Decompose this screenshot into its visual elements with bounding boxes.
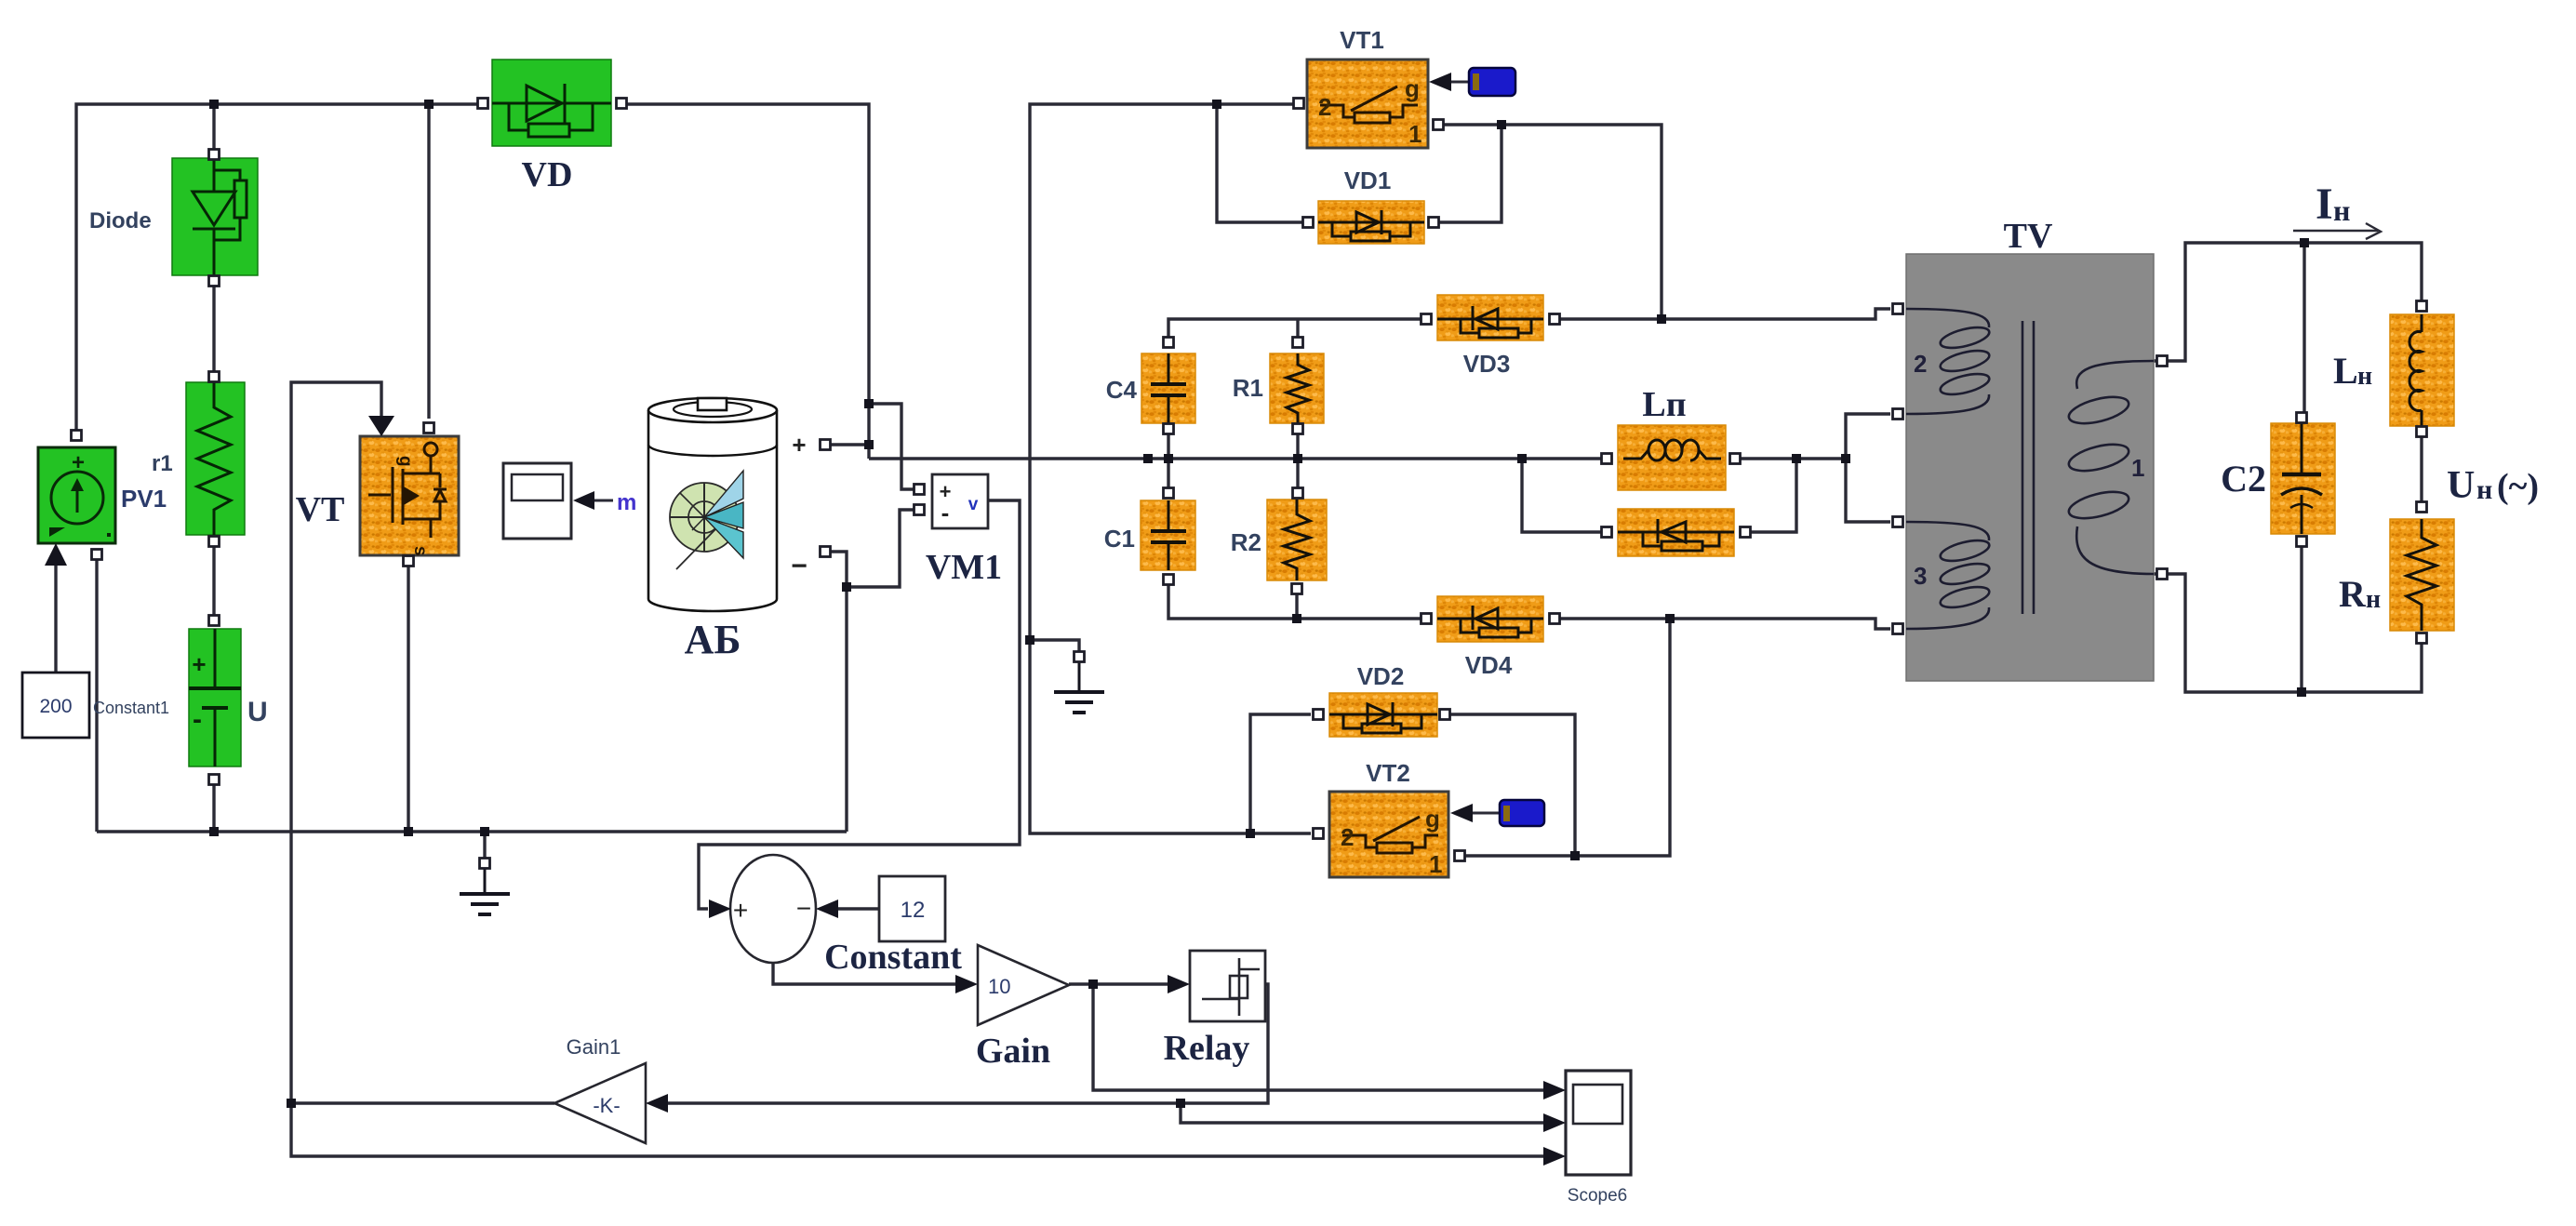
- wire top rail VD to corner: [627, 104, 869, 459]
- junction Gain1 output: [287, 1099, 296, 1108]
- label Diode: [89, 208, 152, 233]
- wire bottom rail: [97, 830, 847, 833]
- wire VD1 right branch: [1439, 125, 1502, 222]
- label PV1: [121, 485, 167, 513]
- wire ground2 branch: [1030, 640, 1079, 651]
- svg-text:Constant1: Constant1: [93, 699, 169, 717]
- wire R1 bottom: [1296, 429, 1299, 459]
- junction top rail Diode: [209, 100, 219, 109]
- arrow into sum plus: [709, 900, 731, 918]
- port C2 bottom: [2297, 537, 2307, 547]
- voltmeter VM1: [932, 474, 988, 528]
- port VD2 left: [1314, 710, 1324, 720]
- svg-text:+: +: [192, 650, 206, 678]
- wire VD2 branch: [1250, 714, 1311, 833]
- wire VT1 anode to VD3 net: [1444, 125, 1662, 319]
- capacitor C2: [2271, 423, 2335, 534]
- scope block Scope6: [1566, 1071, 1631, 1175]
- ground symbol near U: [460, 869, 510, 914]
- label VT1: [1340, 26, 1384, 54]
- wire Relay output to Gain1: [666, 984, 1268, 1103]
- display block: [503, 463, 571, 539]
- label VD: [522, 155, 573, 194]
- label AB minus: [791, 551, 808, 581]
- wire VT2 collector net: [1465, 619, 1670, 856]
- junction top rail VT: [424, 100, 434, 109]
- junction load top: [2300, 238, 2309, 247]
- junction mid rail C1: [1164, 454, 1173, 463]
- arrow scope input3: [1543, 1147, 1566, 1166]
- wire AB minus jog: [831, 552, 847, 587]
- svg-text:1: 1: [1429, 850, 1442, 878]
- diode VD4: [1437, 596, 1543, 642]
- junction bottom rail ground1: [480, 827, 489, 836]
- wire PV1 minus to bottom rail: [95, 560, 98, 832]
- wire VM1 minus input branch: [847, 510, 914, 587]
- junction relay feedback: [1176, 1099, 1185, 1108]
- svg-text:(~): (~): [2497, 467, 2539, 506]
- junction VD4 rail VT2: [1665, 614, 1675, 623]
- port freewheel diode right: [1741, 527, 1751, 538]
- port R2 bottom: [1292, 584, 1302, 594]
- label m: [617, 490, 636, 515]
- wire C1 top: [1167, 459, 1169, 487]
- label VD1: [1344, 167, 1392, 194]
- svg-text:н: н: [2357, 362, 2372, 391]
- svg-text:s: s: [410, 546, 430, 556]
- junction VT1 anode VD1: [1497, 120, 1506, 129]
- inductor Ln: [2390, 314, 2454, 426]
- port Rn top: [2417, 502, 2427, 513]
- svg-text:Diode: Diode: [89, 208, 152, 233]
- wire Gain to Relay: [1069, 982, 1169, 985]
- wire r1 to U: [212, 547, 215, 616]
- capacitor C4: [1141, 353, 1195, 423]
- port VT source bottom: [404, 556, 414, 566]
- wire AB plus to mid rail: [831, 443, 869, 446]
- diode VD1: [1318, 201, 1424, 244]
- junction mid rail Lp loop: [1517, 454, 1527, 463]
- wire sum output to Gain: [773, 963, 957, 984]
- svg-text:VD1: VD1: [1344, 167, 1392, 194]
- port Ln top: [2417, 301, 2427, 312]
- label AB: [685, 617, 741, 662]
- label Constant: [824, 938, 962, 977]
- svg-text:2: 2: [1341, 823, 1354, 851]
- svg-text:200: 200: [39, 696, 72, 717]
- junction bottom rail VT: [404, 827, 413, 836]
- wire C2 top branch: [2302, 243, 2305, 412]
- svg-text:r1: r1: [152, 451, 173, 476]
- port Lp left: [1602, 454, 1612, 464]
- port VT drain top: [424, 423, 434, 433]
- transistor VT1: [1307, 60, 1428, 148]
- svg-text:-: -: [193, 704, 202, 735]
- wire to VD4: [1297, 617, 1421, 620]
- junction gate net ground2: [1025, 635, 1034, 645]
- constant block Constant1 value 200: [22, 673, 89, 738]
- svg-text:1: 1: [1408, 120, 1421, 148]
- svg-text:Constant: Constant: [824, 938, 962, 977]
- svg-text:10: 10: [988, 975, 1010, 998]
- transistor VT2: [1329, 792, 1448, 878]
- wire TV port1 top to load: [2154, 243, 2422, 361]
- svg-text:+: +: [733, 896, 748, 925]
- wire Lp diode loop left: [1522, 459, 1601, 532]
- wire R2 bottom: [1295, 594, 1298, 619]
- junction VD1 top: [1212, 100, 1221, 109]
- port VM1 minus: [914, 505, 925, 515]
- diode VD3: [1437, 295, 1543, 340]
- wire mid plus rail: [869, 457, 1607, 460]
- resistor R1: [1270, 353, 1324, 423]
- port AB minus: [821, 547, 831, 557]
- port TV winding1 bottom: [2157, 569, 2168, 580]
- svg-text:−: −: [791, 551, 808, 581]
- junction Gain output: [1088, 979, 1098, 989]
- junction plus port: [864, 440, 874, 449]
- diode block VD: [492, 60, 611, 146]
- port ground2: [1074, 652, 1085, 662]
- wire Constant1 to PV1: [54, 556, 57, 673]
- port VD1 right: [1429, 218, 1439, 228]
- port C2 top: [2297, 413, 2307, 423]
- label Ln: [2333, 350, 2372, 392]
- junction gate net VT2: [1246, 829, 1255, 838]
- wire C2 bottom branch: [2300, 547, 2302, 692]
- diode block Diode: [172, 158, 258, 275]
- arrow VT1 gate: [1429, 73, 1469, 91]
- wire Constant 12 to sum: [836, 907, 879, 910]
- label R1: [1233, 374, 1263, 402]
- wire VM1 plus input branch: [869, 404, 914, 489]
- resistor Rn: [2390, 519, 2454, 631]
- junction TV winding link: [1841, 454, 1850, 463]
- svg-text:PV1: PV1: [121, 485, 167, 513]
- wire to VD3: [1298, 317, 1421, 320]
- svg-text:C4: C4: [1106, 376, 1138, 404]
- svg-text:TV: TV: [2004, 217, 2053, 256]
- label TV: [2004, 217, 2053, 256]
- port VD1 left: [1303, 218, 1314, 228]
- svg-text:U: U: [2447, 464, 2475, 507]
- svg-text:+: +: [792, 431, 806, 459]
- wire R2 top: [1296, 459, 1299, 487]
- port R1 top: [1293, 338, 1303, 348]
- svg-text:VT: VT: [296, 490, 345, 529]
- label Gain1: [567, 1035, 621, 1059]
- svg-text:Relay: Relay: [1164, 1029, 1250, 1068]
- label VD2: [1357, 662, 1405, 690]
- gain block Gain1: [554, 1063, 646, 1143]
- ground symbol center: [1054, 662, 1104, 713]
- label Scope6: [1568, 1186, 1627, 1206]
- port VD4 right: [1550, 614, 1560, 624]
- label AB plus: [792, 431, 806, 459]
- wire VM1 output to sum: [699, 500, 1020, 909]
- svg-text:C2: C2: [2221, 458, 2266, 500]
- svg-text:VD4: VD4: [1465, 651, 1513, 679]
- port C1 top: [1164, 488, 1174, 499]
- port R2 top: [1293, 488, 1303, 499]
- wire VD1 left branch: [1217, 104, 1302, 222]
- svg-text:U: U: [247, 697, 268, 727]
- wire VT gate drive vertical: [291, 382, 1545, 1156]
- label VD3: [1463, 350, 1511, 378]
- port Lp right: [1730, 454, 1741, 464]
- arrow into Gain: [955, 975, 978, 993]
- label In with arrow: [2293, 180, 2381, 239]
- wire Lp diode loop right: [1740, 459, 1796, 532]
- port VT2 pin2: [1314, 829, 1324, 839]
- port VD right: [617, 99, 627, 109]
- port VD4 left: [1421, 614, 1432, 624]
- svg-text:-: -: [941, 499, 950, 526]
- svg-text:-K-: -K-: [593, 1094, 620, 1117]
- svg-text:VD3: VD3: [1463, 350, 1511, 378]
- label VD4: [1465, 651, 1513, 679]
- transformer TV: [1906, 254, 2154, 681]
- label C1: [1104, 525, 1135, 553]
- wire VT drain branch: [427, 104, 430, 419]
- svg-text:g: g: [1405, 74, 1420, 102]
- label VT: [296, 490, 345, 529]
- wire VD4 to TV port3: [1560, 619, 1890, 629]
- wire TV winding2 bottom link: [1846, 414, 1890, 522]
- port Diode top: [209, 150, 220, 160]
- svg-text:2: 2: [1914, 350, 1927, 378]
- svg-text:m: m: [617, 490, 636, 515]
- svg-text:g: g: [395, 456, 415, 467]
- wire ground1 stub: [483, 832, 486, 858]
- port ground1: [480, 859, 490, 869]
- junction VT2 VD2: [1570, 851, 1580, 860]
- junction Lp right: [1792, 454, 1801, 463]
- wire Ln to Rn: [2420, 437, 2423, 501]
- svg-text:VT2: VT2: [1366, 759, 1410, 787]
- junction mid rail R1: [1293, 454, 1302, 463]
- label Relay: [1164, 1029, 1250, 1068]
- svg-text:3: 3: [1914, 562, 1927, 590]
- svg-text:Gain1: Gain1: [567, 1035, 621, 1059]
- port U bottom: [209, 775, 220, 785]
- svg-text:Gain: Gain: [976, 1032, 1050, 1071]
- wire Diode branch: [212, 104, 215, 149]
- svg-text:Lп: Lп: [1642, 385, 1686, 424]
- arrow into display: [573, 491, 613, 510]
- source PV1: [38, 447, 115, 543]
- arrow scope input2: [1543, 1113, 1566, 1132]
- label VT2: [1366, 759, 1410, 787]
- port TV winding3 top: [1893, 517, 1903, 527]
- wire TV port1 bottom to load: [2154, 574, 2422, 692]
- wire C4 top: [1168, 319, 1298, 348]
- label U: [247, 697, 268, 727]
- port TV winding2 bottom: [1893, 409, 1903, 420]
- svg-text:R2: R2: [1231, 528, 1261, 556]
- wire Diode to r1: [212, 285, 215, 372]
- wire U to bottom rail: [212, 785, 215, 832]
- wire VT1 gate net vertical: [1030, 104, 1311, 833]
- svg-text:VD: VD: [522, 155, 573, 194]
- port VD2 right: [1440, 710, 1450, 720]
- label Constant1: [93, 699, 169, 717]
- wire top rail PV1 to VD: [76, 104, 477, 430]
- label VM1: [926, 548, 1002, 587]
- svg-text:R1: R1: [1233, 374, 1263, 402]
- arrow into sum minus: [816, 900, 838, 918]
- battery U: [189, 629, 241, 766]
- svg-text:C1: C1: [1104, 525, 1135, 553]
- port PV1 top: [72, 431, 82, 441]
- label Lp: [1642, 385, 1686, 424]
- port C4 top: [1164, 338, 1174, 348]
- svg-text:н: н: [2476, 474, 2492, 505]
- arrow into PV1 signal input: [45, 543, 67, 566]
- label r1: [152, 451, 173, 476]
- svg-text:2: 2: [1318, 93, 1331, 121]
- port VT2 pin1: [1455, 851, 1465, 861]
- svg-text:v: v: [968, 495, 979, 514]
- wire VD2 right branch: [1450, 714, 1575, 856]
- wire C1 bottom: [1168, 585, 1297, 619]
- svg-text:VM1: VM1: [926, 548, 1002, 587]
- port VD3 right: [1550, 314, 1560, 325]
- wire VD3 to TV port2: [1560, 309, 1890, 319]
- port Ln bottom: [2417, 427, 2427, 437]
- junction VD3 net: [1657, 314, 1666, 324]
- junction bottom rail U: [209, 827, 219, 836]
- svg-text:VD2: VD2: [1357, 662, 1405, 690]
- label C2: [2221, 458, 2266, 500]
- label C4: [1106, 376, 1138, 404]
- svg-text:g: g: [1425, 805, 1440, 833]
- port r1 top: [209, 372, 220, 382]
- svg-text:R: R: [2339, 573, 2367, 615]
- gain block Gain: [978, 945, 1069, 1025]
- wire Gain1 output: [291, 1101, 554, 1104]
- svg-text:L: L: [2333, 350, 2358, 392]
- wire VT source to bottom rail: [407, 566, 409, 832]
- port C1 bottom: [1164, 575, 1174, 585]
- port VD3 left: [1421, 314, 1432, 325]
- arrow into Relay: [1168, 975, 1190, 993]
- port freewheel diode left: [1602, 527, 1612, 538]
- port Rn bottom: [2417, 633, 2427, 644]
- port TV winding1 top: [2157, 356, 2168, 366]
- svg-text:Scope6: Scope6: [1568, 1186, 1627, 1206]
- wire AB minus to bottom rail: [845, 587, 848, 832]
- port VT1 pin1: [1434, 120, 1444, 130]
- relay block Relay: [1190, 951, 1265, 1021]
- svg-text:н: н: [2366, 585, 2381, 614]
- arrow into Gain1: [646, 1094, 668, 1113]
- sum block: [730, 855, 816, 963]
- junction mid rail C4: [1143, 454, 1153, 463]
- port VM1 plus: [914, 485, 925, 495]
- wire Gain junction to Scope in1: [1093, 984, 1545, 1090]
- junction AB minus jog: [842, 582, 851, 592]
- diode VD2: [1329, 693, 1437, 737]
- port AB plus: [821, 440, 831, 450]
- port Diode bottom: [209, 276, 220, 287]
- svg-text:н: н: [2333, 193, 2350, 227]
- battery AB cylinder: [648, 398, 777, 611]
- gate pulse block for VT1: [1469, 68, 1515, 96]
- label R2: [1231, 528, 1261, 556]
- wire branch to Scope in2: [1181, 1103, 1545, 1123]
- svg-text:12: 12: [901, 898, 926, 923]
- diode freewheel under Lp: [1618, 509, 1734, 556]
- junction VD4 rail R2: [1292, 614, 1301, 623]
- arrow VT gate: [368, 416, 394, 436]
- port VT1 pin2: [1294, 99, 1304, 109]
- junction plus vertical VM1: [864, 399, 874, 408]
- port U top: [209, 616, 220, 626]
- port TV winding2 top: [1893, 304, 1903, 314]
- svg-text:АБ: АБ: [685, 617, 741, 662]
- capacitor C1: [1141, 500, 1195, 570]
- transistor VT: [360, 436, 459, 556]
- constant block value 12: [879, 876, 945, 941]
- arrow VT2 gate: [1450, 804, 1500, 822]
- gate pulse block for VT2: [1500, 800, 1544, 826]
- svg-text:VT1: VT1: [1340, 26, 1384, 54]
- arrow scope input1: [1543, 1081, 1566, 1099]
- wire R1 top: [1296, 319, 1299, 348]
- port TV winding3 bottom: [1893, 624, 1903, 634]
- port C4 bottom: [1164, 424, 1174, 434]
- port VD left: [478, 99, 488, 109]
- svg-text:I: I: [2316, 180, 2333, 229]
- label Rn: [2339, 573, 2381, 615]
- svg-text:1: 1: [2131, 454, 2144, 482]
- wire C4 bottom: [1167, 429, 1169, 459]
- junction load bottom: [2297, 687, 2306, 697]
- svg-text:−: −: [796, 894, 811, 923]
- label Gain: [976, 1032, 1050, 1071]
- port PV1 minus: [92, 550, 102, 560]
- resistor r1: [186, 382, 245, 535]
- port R1 bottom: [1293, 424, 1303, 434]
- wire Lp right: [1741, 457, 1846, 460]
- resistor R2: [1267, 500, 1327, 580]
- port r1 bottom: [209, 537, 220, 547]
- label Un: [2447, 464, 2539, 507]
- inductor Lp: [1618, 425, 1726, 490]
